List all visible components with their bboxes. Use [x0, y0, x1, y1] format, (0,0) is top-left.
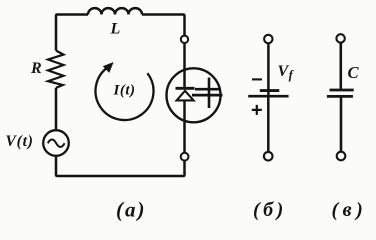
diode D1 triangle (anode, pointing up) [177, 91, 194, 101]
svg-text:V(t): V(t) [6, 133, 34, 150]
wire: node to device circle [183, 43, 186, 88]
loop current arc I(t) [96, 66, 154, 120]
diode D1 cathode bar [176, 87, 195, 90]
capacitor C: bottom plate [327, 95, 353, 98]
svg-text:I(t): I(t) [113, 83, 136, 99]
wire: top right corner [142, 15, 185, 36]
device circle U1 (diode + capacitor element) [167, 68, 221, 122]
inductor L1 coil bumps [88, 8, 142, 14]
battery Vf: top lead wire [267, 43, 270, 95]
capacitor C: top plate [330, 89, 354, 92]
battery Vf: positive long plate [248, 95, 288, 98]
svg-text:C: C [348, 63, 360, 82]
svg-text:Vf: Vf [278, 63, 295, 82]
battery Vf: bottom lead wire [267, 98, 270, 153]
svg-text:(в): (в) [332, 199, 368, 221]
plus sign [252, 105, 262, 115]
AC source V(t) circle [43, 130, 69, 156]
svg-text:(б): (б) [253, 199, 287, 221]
battery Vf: bottom terminal node [264, 152, 273, 161]
wire: device circle to bottom node [183, 100, 186, 152]
svg-text:L: L [110, 21, 121, 38]
capacitor C: top terminal node [336, 34, 344, 42]
svg-text:(а): (а) [116, 198, 147, 222]
minus sign [252, 78, 262, 80]
AC source sine wave [48, 140, 65, 147]
wire: top side of loop (left part) [56, 15, 88, 51]
node: top terminal of diode branch [181, 36, 188, 43]
capacitor C: bottom terminal node [337, 152, 346, 161]
wire: source to resistor [55, 88, 58, 130]
wire: bottom side of loop [56, 156, 185, 176]
svg-text:R: R [30, 60, 42, 77]
node: bottom terminal of diode branch [181, 153, 189, 161]
loop current arrowhead [103, 62, 114, 73]
capacitor plates inside device circle [192, 78, 223, 109]
battery Vf: negative short plate [260, 89, 280, 92]
capacitor C: bottom lead wire [340, 96, 343, 152]
battery Vf: top terminal node [264, 35, 272, 43]
capacitor C: top lead wire [339, 42, 342, 90]
resistor R1 zigzag [48, 51, 64, 88]
